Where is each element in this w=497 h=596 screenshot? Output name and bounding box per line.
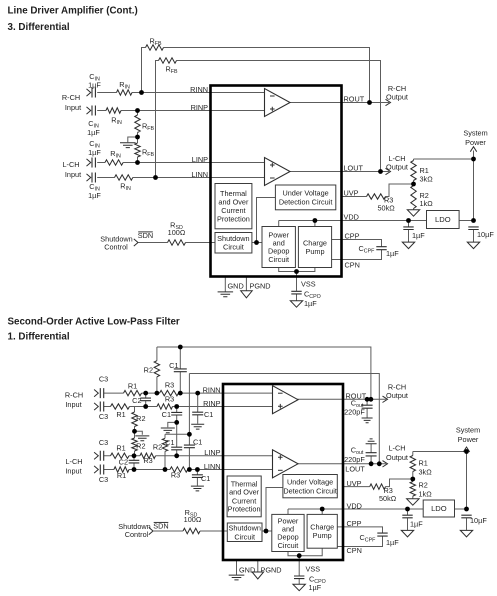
node L feedback row (187, 432, 192, 437)
wire C1 L leads (188, 434, 190, 469)
svg-text:R2: R2 (419, 481, 428, 490)
shutdown circuit block 2 (227, 523, 262, 542)
ground triangle 10uF cap (467, 242, 479, 249)
wire C1 RINN to ground (197, 393, 199, 424)
node C1 on LINN (187, 467, 192, 472)
system power arrow (470, 147, 476, 152)
wire LINN filter input line (104, 469, 275, 471)
svg-text:VDD: VDD (344, 213, 359, 222)
op-amp IC U2 (low-pass filter) (223, 384, 343, 560)
ground (C1 LINN) (191, 486, 204, 491)
node system power / R1 (471, 157, 476, 162)
svg-text:50kΩ: 50kΩ (378, 204, 396, 213)
node C1 chain RINP (174, 404, 179, 409)
wire PGND drop (245, 277, 247, 291)
svg-text:3kΩ: 3kΩ (420, 175, 434, 184)
svg-text:R1: R1 (116, 444, 125, 453)
svg-text:Output: Output (386, 453, 408, 462)
input marker L-CH filter line1 (94, 452, 98, 459)
svg-text:LDO: LDO (431, 504, 447, 513)
node RINN/RFB junction (139, 90, 144, 95)
ground triangle below R2 (407, 210, 419, 217)
LDO regulator 2 (423, 500, 454, 517)
node VDD charge pump 2 (320, 507, 325, 512)
svg-text:GND: GND (228, 282, 244, 291)
wire LINN input line (97, 177, 266, 179)
svg-text:1µF: 1µF (304, 299, 317, 308)
wire VDD cap stub 2 (407, 509, 409, 530)
charge pump block 2 (307, 514, 337, 548)
wire CPN net (332, 250, 382, 260)
svg-text:Detection Circuit: Detection Circuit (279, 198, 333, 207)
resistor RIN (RINP) (106, 108, 121, 113)
node LOUT feedback junction (378, 169, 383, 174)
capacitor CCPO 1uF (291, 291, 301, 294)
input marker R-CH line 2 (87, 107, 91, 114)
wire GND drop (224, 277, 226, 292)
svg-text:GND: GND (239, 566, 255, 575)
wire CPP net (332, 240, 382, 247)
svg-text:1µF: 1µF (88, 148, 101, 157)
node C1 on RINN (178, 391, 183, 396)
svg-text:R1: R1 (128, 382, 137, 391)
ground Cout L (366, 439, 377, 444)
resistor RFB (rail B) (159, 58, 177, 63)
svg-text:Output: Output (386, 93, 408, 102)
svg-text:R3: R3 (165, 395, 174, 404)
ground triangle PGND (241, 291, 253, 298)
capacitor C1 (rail2 feedback) (184, 445, 195, 448)
svg-text:10µF: 10µF (470, 516, 487, 525)
resistor R3 (RINP) (157, 404, 173, 409)
svg-text:CPN: CPN (347, 546, 362, 555)
input marker shutdown 2 (149, 527, 153, 534)
node R2 on LINN (163, 467, 168, 472)
svg-text:C1: C1 (204, 410, 213, 419)
shutdown circuit block (215, 233, 252, 254)
wire system power column (473, 151, 475, 221)
node R1/C2 RINN (143, 391, 148, 396)
svg-text:UVP: UVP (347, 479, 362, 488)
wire system power column 2 (466, 451, 468, 509)
svg-text:VSS: VSS (306, 565, 321, 574)
svg-text:LINP: LINP (192, 155, 208, 164)
svg-text:RINN: RINN (203, 385, 221, 394)
svg-text:L-CH: L-CH (62, 160, 79, 169)
svg-text:C2: C2 (119, 458, 128, 467)
wire RFB chain ground stub (128, 137, 138, 142)
svg-text:Input: Input (65, 467, 81, 476)
wire bottom depop/charge-pump link (279, 268, 315, 272)
svg-text:RINN: RINN (190, 85, 208, 94)
svg-text:3kΩ: 3kΩ (419, 468, 433, 477)
svg-text:UVP: UVP (344, 189, 359, 198)
ground GND pin (218, 292, 234, 297)
svg-text:Line Driver Amplifier (Cont.): Line Driver Amplifier (Cont.) (8, 6, 138, 17)
wire PGND drop 2 (257, 560, 259, 572)
svg-text:R2: R2 (144, 366, 153, 375)
ground triangle CCPO (290, 301, 302, 308)
svg-text:220pF: 220pF (344, 455, 365, 464)
svg-text:Detection Circuit: Detection Circuit (283, 486, 337, 495)
resistor RFB (RINP to gnd) (135, 115, 140, 133)
svg-text:R2: R2 (153, 442, 162, 451)
svg-text:Shutdown: Shutdown (228, 524, 260, 533)
resistor RFB (rail A) (146, 45, 164, 50)
node system power / LDO 2 (464, 507, 469, 512)
svg-text:L-CH: L-CH (388, 444, 405, 453)
svg-text:1µF: 1µF (87, 128, 100, 137)
node rail2 on LOUT (377, 461, 382, 466)
ground triangle VDD cap (402, 242, 414, 249)
svg-text:Circuit: Circuit (234, 532, 255, 541)
wire C2 L stubs (133, 456, 135, 470)
system power arrow 2 (463, 447, 469, 452)
resistor RFB (gnd to LINP) (135, 143, 140, 157)
ground (R2 chain) (135, 436, 149, 441)
svg-text:3. Differential: 3. Differential (8, 22, 70, 33)
svg-text:R1: R1 (116, 410, 125, 419)
capacitor CIN (RINN) 1uF (92, 88, 95, 98)
wire C1 chain ground stub (168, 422, 177, 427)
svg-text:1µF: 1µF (412, 231, 425, 240)
svg-text:C1: C1 (193, 438, 202, 447)
svg-text:RINP: RINP (203, 399, 221, 408)
resistor R2 1k 2 (410, 482, 415, 497)
wire RINP filter input line (104, 406, 275, 408)
svg-text:LINN: LINN (191, 170, 208, 179)
capacitor C3 (RINP) (100, 402, 103, 412)
svg-text:Input: Input (65, 170, 81, 179)
svg-text:C2: C2 (132, 396, 141, 405)
wire feedback rail A (RINN to ROUT) (142, 48, 370, 103)
input marker R-CH filter line1 (94, 390, 98, 397)
svg-text:1µF: 1µF (309, 583, 322, 592)
wire R2 L leads (164, 434, 166, 469)
svg-text:C1: C1 (165, 438, 174, 447)
resistor R1 3k 2 (410, 456, 415, 472)
wire SDN control line (139, 242, 216, 244)
node C1gnd on RINN (195, 391, 200, 396)
resistor R1 (LINN) (114, 467, 129, 472)
wire rail2 left vertical (188, 374, 190, 435)
ground Cout R (362, 418, 373, 423)
wire LINP filter input line (104, 455, 275, 457)
under voltage detection circuit block (275, 185, 335, 210)
wire VDD cap stub (408, 221, 410, 243)
wire R2 divider chain (RINP-LINP) (134, 407, 136, 456)
ground triangle VDD cap 2 (401, 530, 413, 537)
svg-text:Protection: Protection (228, 505, 261, 514)
wire RFB divider chain (137, 111, 139, 163)
wire R1 R2 divider 2 (412, 452, 414, 499)
svg-text:1kΩ: 1kΩ (419, 489, 433, 498)
wire system power horizontal (414, 158, 474, 160)
capacitor C1b (gnd-LINP) (171, 447, 182, 450)
wire VDD net 2 (288, 509, 423, 514)
capacitor CIN (LINP) 1uF (92, 158, 95, 168)
svg-text:VSS: VSS (301, 280, 316, 289)
svg-text:100Ω: 100Ω (168, 228, 186, 237)
svg-text:RINP: RINP (191, 103, 209, 112)
LDO regulator (427, 211, 460, 229)
svg-text:R-CH: R-CH (65, 391, 83, 400)
svg-text:LINN: LINN (204, 462, 221, 471)
ground GND pin 2 (229, 575, 245, 580)
wire LOUT output (290, 171, 389, 173)
node rail1 on ROUT (369, 397, 374, 402)
capacitor C2 (RINN-RINP) (140, 398, 151, 401)
resistor R2 1k (411, 186, 416, 209)
wire RINP input line (97, 110, 266, 112)
wire shutdown to power depop (252, 242, 262, 244)
charge pump block (298, 227, 331, 268)
wire C1 top leads (rail1) (179, 347, 181, 393)
output arrow R-CH 2 (383, 396, 388, 402)
ground triangle 10uF 2 (460, 530, 472, 537)
capacitor C1 (RINN-gnd) (192, 412, 203, 415)
wire ROUT output (290, 102, 389, 104)
wire Cout R stub (366, 399, 368, 418)
node ROUT feedback junction (367, 100, 372, 105)
svg-text:R-CH: R-CH (62, 93, 80, 102)
capacitor CCPF 1uF (376, 247, 386, 250)
under voltage detection block 2 (283, 475, 337, 498)
resistor R2 (rail1 feedback) (154, 361, 159, 377)
resistor RIN (RINN) (117, 90, 133, 95)
resistor RSD 100ohm (168, 240, 186, 245)
resistor R3 (RINN) (160, 390, 179, 395)
capacitor 1uF VDD 2 (402, 515, 412, 518)
svg-text:LOUT: LOUT (344, 164, 364, 173)
svg-text:1µF: 1µF (386, 538, 399, 547)
node system power / LDO out (471, 218, 476, 223)
ground (C1 RINN) (191, 424, 204, 429)
wire 10uF cap stub (473, 227, 475, 243)
ground triangle CCPO 2 (293, 584, 306, 591)
svg-text:System: System (463, 129, 487, 138)
resistor R2a (RINP-gnd) (132, 412, 137, 427)
capacitor C2 (LINP-LINN) (129, 460, 140, 463)
wire 10uF cap stub 2 (466, 515, 468, 531)
resistor R1 (RINP) (111, 404, 130, 409)
resistor RSD 100ohm 2 (183, 528, 200, 533)
capacitor CIN (RINP) 1uF (92, 106, 95, 116)
node R1/R2 junction (411, 182, 416, 187)
ground (C1 chain) (161, 428, 175, 433)
svg-text:Control: Control (104, 243, 128, 252)
wire VDD to charge pump 2 (321, 509, 323, 514)
power and depop circuit block (262, 227, 295, 268)
resistor R1 (RINN) (124, 390, 142, 395)
wire VDD net (279, 221, 427, 227)
wire filter rail 2 (to LOUT) (189, 374, 379, 464)
wire L feedback row (165, 433, 189, 435)
wire R2 chain ground stub (135, 431, 143, 435)
node R1/R3 LINP (132, 453, 137, 458)
capacitor C3 (RINN) (100, 388, 103, 398)
svg-text:Circuit: Circuit (268, 255, 289, 264)
output arrow L-CH (386, 168, 391, 174)
svg-text:R2: R2 (136, 442, 145, 451)
capacitor CCPO 2 (294, 576, 304, 579)
svg-text:R1: R1 (117, 471, 126, 480)
node VDD cap junction (406, 218, 411, 223)
wire VDD to charge pump (314, 221, 316, 227)
power and depop block 2 (272, 514, 304, 551)
node VDD charge pump (313, 218, 318, 223)
svg-text:LDO: LDO (435, 215, 451, 224)
op-amp A1 (R channel) (265, 89, 291, 117)
node R1/C2 RINP (143, 404, 148, 409)
svg-text:Under Voltage: Under Voltage (282, 189, 328, 198)
svg-text:CPP: CPP (345, 232, 360, 241)
thermal block 2 (227, 476, 261, 517)
wire RINN filter input line (104, 392, 275, 394)
wire CPN net 2 (337, 536, 382, 546)
capacitor 10uF (system power) (468, 227, 478, 230)
svg-text:1µF: 1µF (386, 249, 399, 258)
svg-text:C1: C1 (162, 410, 171, 419)
node VSS junction (294, 269, 299, 274)
svg-text:220pF: 220pF (344, 408, 365, 417)
wire GND drop 2 (236, 560, 238, 575)
svg-text:10µF: 10µF (477, 230, 494, 239)
svg-text:C3: C3 (99, 412, 108, 421)
output arrow R-CH (386, 99, 391, 105)
svg-text:Second-Order Active Low-Pass F: Second-Order Active Low-Pass Filter (8, 317, 180, 328)
node shutdown circuit output (254, 240, 259, 245)
wire Cout L stub (370, 444, 372, 464)
node Cout on ROUT (365, 397, 370, 402)
svg-text:C1: C1 (201, 474, 210, 483)
wire UVP net (342, 184, 414, 197)
output arrow L-CH 2 (383, 461, 388, 467)
node VDD cap junction 2 (405, 507, 410, 512)
wire C1 LINN to ground (196, 470, 198, 486)
svg-text:PGND: PGND (250, 282, 271, 291)
capacitor C3 (LINN) (100, 465, 103, 475)
svg-text:C3: C3 (99, 438, 108, 447)
svg-text:System: System (456, 426, 480, 435)
svg-text:C3: C3 (99, 475, 108, 484)
svg-text:LOUT: LOUT (345, 465, 365, 474)
svg-text:CPP: CPP (347, 519, 362, 528)
wire C2 R stubs (145, 393, 147, 406)
wire ROUT output 2 (297, 398, 387, 400)
wire VSS drop 2 (298, 556, 300, 585)
capacitor Cout R 220pF (362, 405, 373, 408)
svg-text:Circuit: Circuit (278, 541, 299, 550)
svg-text:C1: C1 (169, 361, 178, 370)
input marker L-CH filter line2 (94, 466, 98, 473)
wire R2 top lead (rail1) (156, 347, 158, 393)
svg-text:Pump: Pump (305, 247, 324, 256)
wire shutdown2 to power depop (262, 530, 272, 532)
wire UVP net 2 (343, 479, 413, 487)
resistor R3 50k (367, 194, 386, 199)
svg-text:1kΩ: 1kΩ (420, 199, 434, 208)
op-amp A3 (R channel filter) (273, 386, 299, 414)
resistor R3 50k 2 (370, 484, 386, 489)
capacitor Cout L 220pF (366, 453, 377, 456)
svg-text:Power: Power (458, 435, 479, 444)
ground triangle below R2 2 (407, 499, 420, 506)
wire C1 divider chain (RINP-LINP) (176, 407, 178, 456)
node shutdown circuit output 2 (264, 529, 269, 534)
node RFB midpoint ground (135, 135, 140, 140)
svg-text:1µF: 1µF (410, 520, 423, 529)
wire LDO to 10uF (459, 220, 473, 222)
svg-text:ROUT: ROUT (346, 392, 367, 401)
op-amp IC U1 (line driver) (211, 86, 342, 277)
input marker R-CH line 1 (87, 89, 91, 96)
svg-text:R3: R3 (165, 381, 174, 390)
wire shutdown2 to UVDC (266, 488, 283, 532)
svg-text:50kΩ: 50kΩ (379, 494, 397, 503)
svg-text:1µF: 1µF (88, 191, 101, 200)
svg-text:LINP: LINP (204, 448, 220, 457)
svg-text:Input: Input (65, 400, 81, 409)
svg-text:R1: R1 (419, 459, 428, 468)
svg-text:Protection: Protection (217, 215, 250, 224)
svg-text:CPN: CPN (345, 261, 360, 270)
wire RINN input line (97, 92, 266, 94)
capacitor CCPF 2 (377, 533, 387, 536)
capacitor C1a (RINP-gnd) (171, 412, 182, 415)
resistor RIN (LINN) (115, 175, 133, 180)
input marker L-CH line 1 (87, 159, 91, 166)
thermal and over current protection block (215, 184, 252, 229)
node C2 on LINN (132, 467, 137, 472)
wire feedback rail B (LINN to LOUT) (156, 61, 381, 178)
svg-text:VDD: VDD (347, 501, 362, 510)
capacitor 1uF (VDD) (403, 227, 413, 230)
svg-text:C3: C3 (99, 375, 108, 384)
svg-text:1µF: 1µF (88, 81, 101, 90)
capacitor C1 (rail1 feedback) (174, 369, 187, 372)
wire filter rail 1 (to ROUT) (157, 347, 371, 399)
resistor R3 (LINN) (170, 467, 188, 472)
svg-text:100Ω: 100Ω (184, 515, 202, 524)
svg-text:Shutdown: Shutdown (217, 234, 249, 243)
node C1 chain LINP (174, 453, 179, 458)
svg-text:Output: Output (386, 163, 408, 172)
wire CPP net 2 (337, 527, 382, 533)
node C1 chain mid (174, 420, 179, 425)
node LINP/RFB junction (135, 160, 140, 165)
svg-text:1. Differential: 1. Differential (8, 332, 70, 343)
svg-text:Under Voltage: Under Voltage (287, 477, 333, 486)
input marker R-CH filter line2 (94, 403, 98, 410)
capacitor C1 (LINN-gnd) (192, 475, 203, 478)
op-amp A4 (L channel filter) (273, 450, 299, 478)
node LINN/RFB junction (153, 175, 158, 180)
wire LINP input line (97, 162, 266, 164)
node R2 on RINN (155, 391, 160, 396)
op-amp A2 (L channel) (265, 158, 291, 186)
wire bottom link 2 (288, 548, 322, 556)
resistor R2 (rail2 feedback) (162, 438, 167, 451)
svg-text:Pump: Pump (313, 531, 332, 540)
input marker shutdown (134, 239, 138, 246)
resistor R2b (gnd-LINP) (132, 438, 137, 451)
capacitor 10uF 2 (461, 515, 471, 518)
capacitor C3 (LINP) (100, 451, 103, 461)
svg-text:R3: R3 (143, 456, 152, 465)
svg-text:L-CH: L-CH (65, 457, 82, 466)
svg-text:SDN: SDN (138, 231, 153, 240)
